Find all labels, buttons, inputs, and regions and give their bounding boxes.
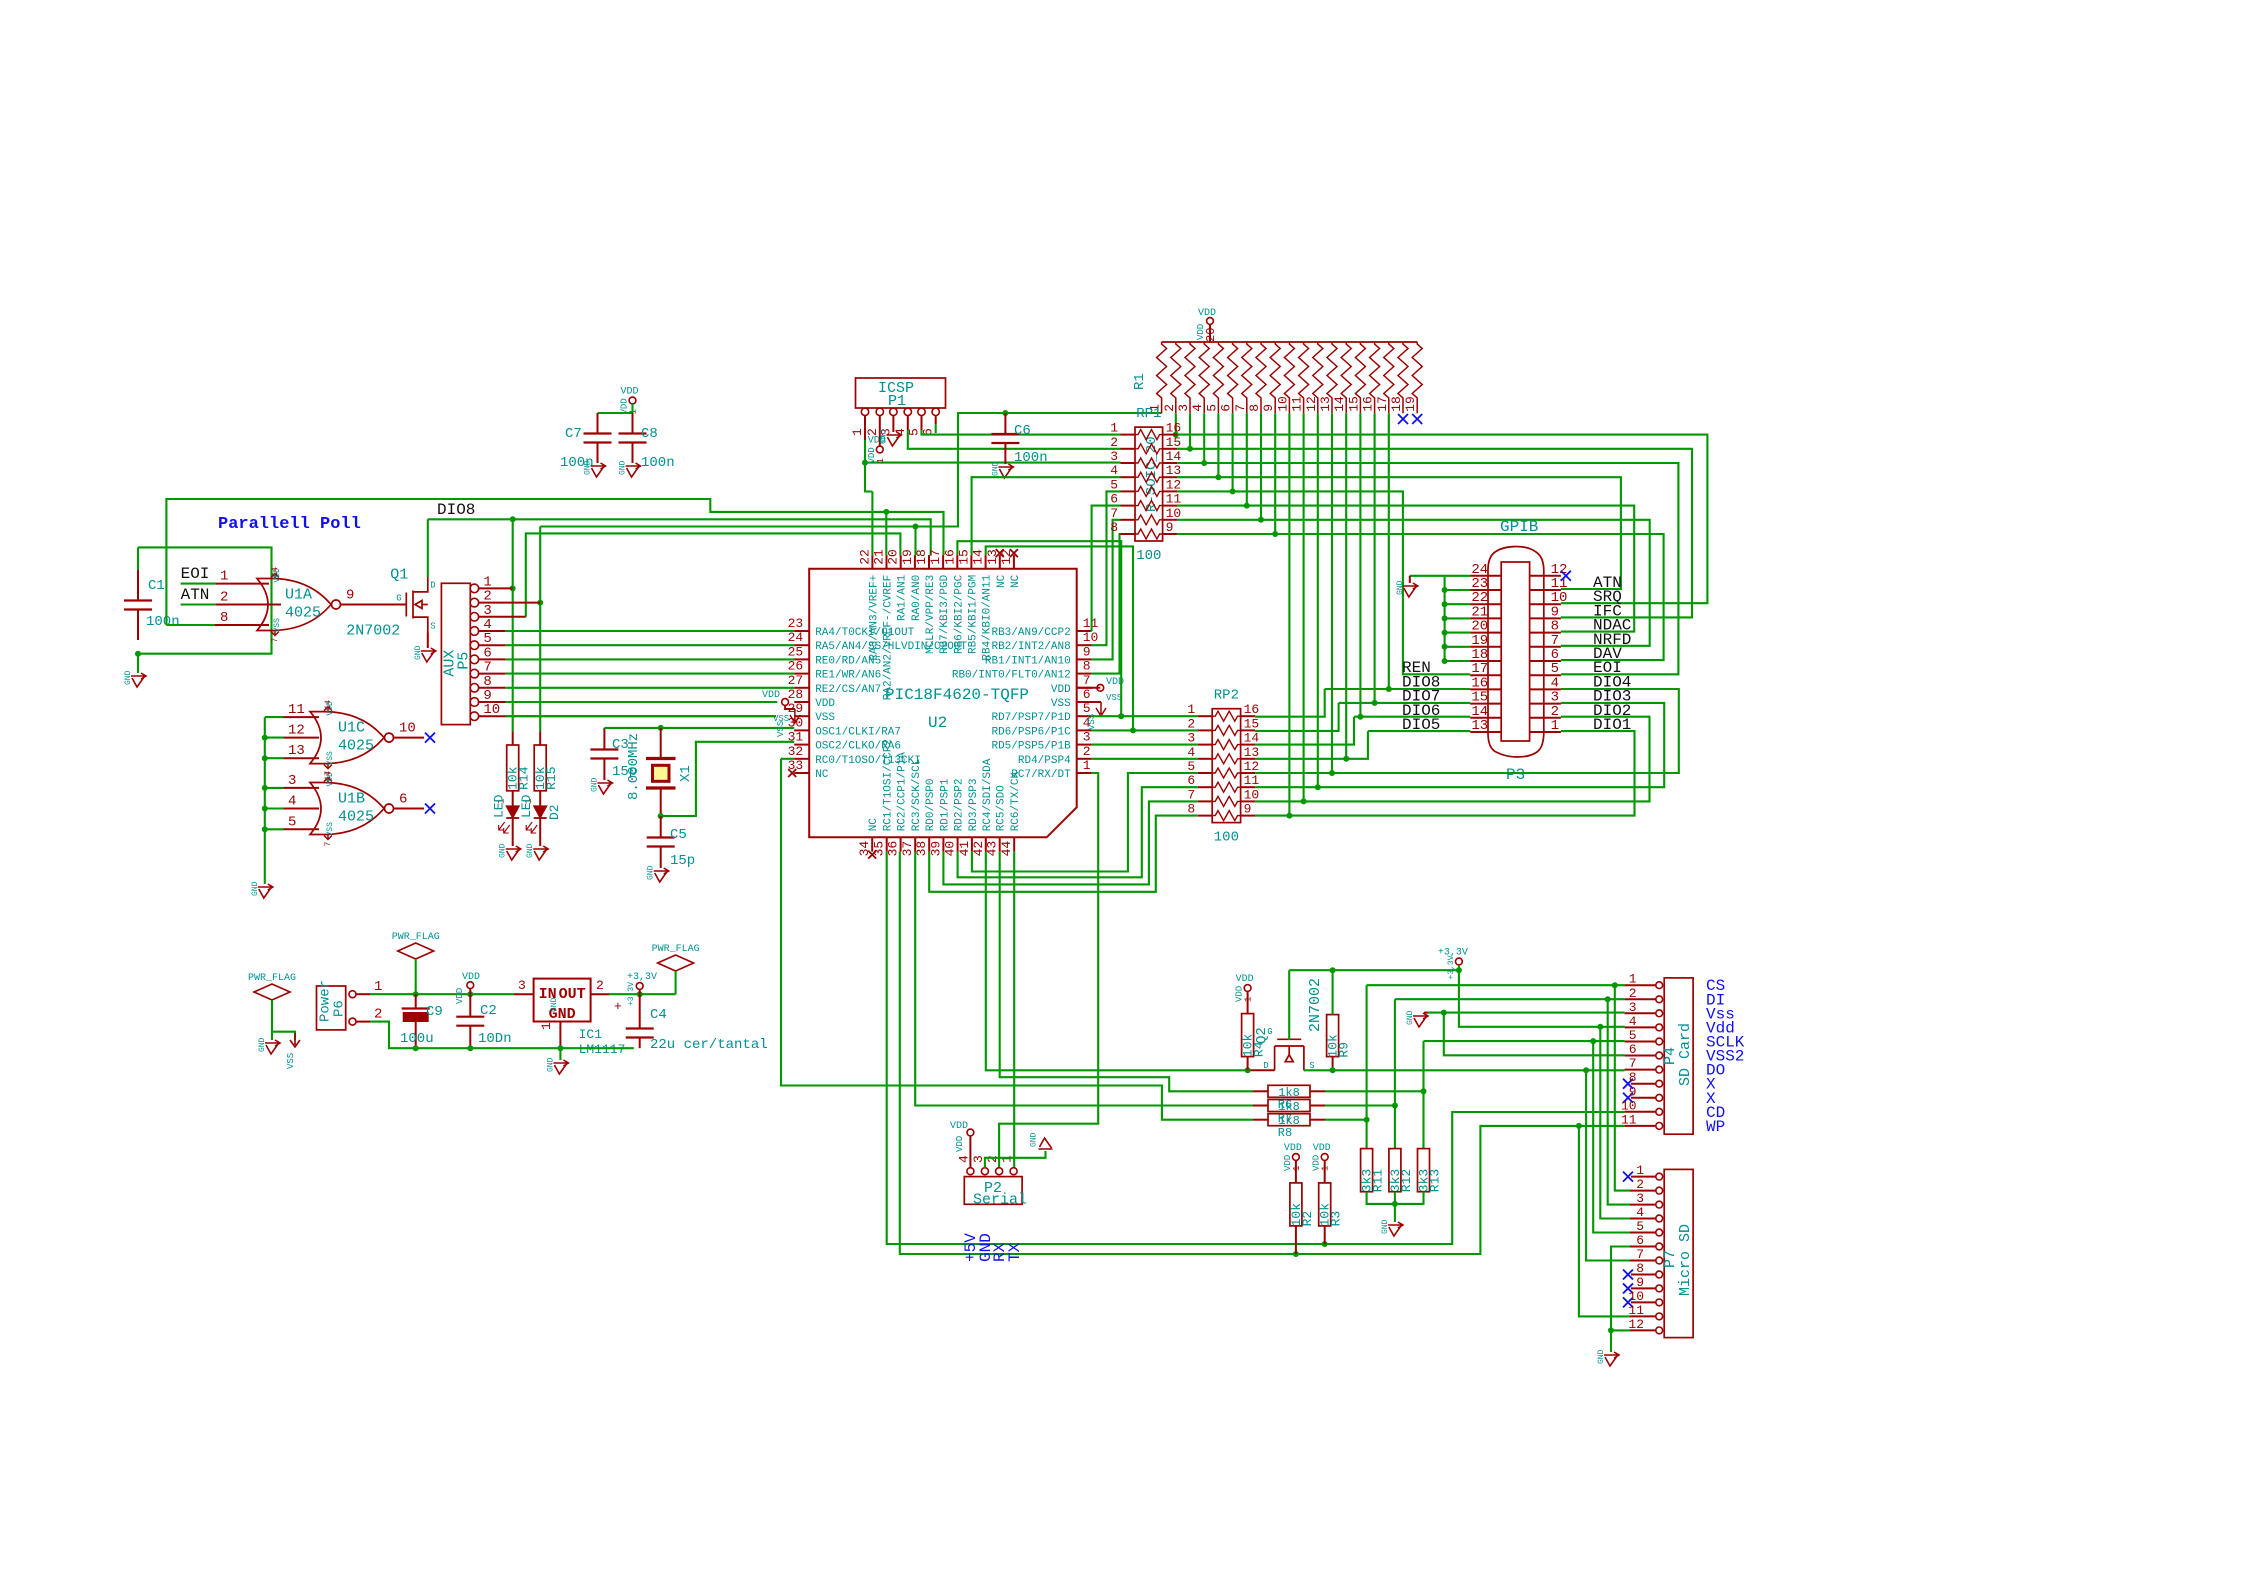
pin 8 P5 xyxy=(470,684,479,693)
svg-text:4: 4 xyxy=(1110,463,1118,478)
svg-text:13: 13 xyxy=(288,743,305,759)
ground xyxy=(626,463,641,477)
pin 7 P7 xyxy=(1656,1257,1663,1264)
junction xyxy=(1330,1067,1336,1073)
junction xyxy=(1421,1088,1427,1094)
pin 41 U2 xyxy=(971,837,973,851)
wire ICSP1 to RP1.3 xyxy=(865,462,1121,464)
ground xyxy=(1604,1352,1619,1366)
junction xyxy=(1343,756,1349,762)
svg-text:NC: NC xyxy=(815,769,829,781)
wire U2.16 jog east xyxy=(957,541,1121,716)
svg-text:VDD: VDD xyxy=(762,690,780,701)
pin 8 RP1 xyxy=(1121,533,1136,535)
wire SRQ xyxy=(1177,435,1707,604)
ground xyxy=(998,464,1013,478)
junction xyxy=(1187,446,1193,452)
svg-text:D: D xyxy=(430,581,435,591)
svg-text:6: 6 xyxy=(1636,1233,1644,1248)
junction xyxy=(1286,813,1292,819)
svg-text:34: 34 xyxy=(857,841,872,857)
junction xyxy=(1597,1024,1603,1030)
wire EOI xyxy=(1177,463,1678,674)
pin 27 U2 xyxy=(794,687,809,689)
wire ATN xyxy=(1177,477,1621,589)
junction xyxy=(262,826,268,832)
pin 23 U2 xyxy=(794,630,809,632)
svg-text:RB5/KBI1/PGM: RB5/KBI1/PGM xyxy=(967,575,979,654)
pin 14 RP2 xyxy=(1241,744,1256,746)
pin 9 P5 xyxy=(470,698,479,707)
wire xyxy=(265,716,284,718)
regulator IC1 LM1117 xyxy=(534,979,591,1022)
pin 6 P7 xyxy=(1656,1243,1663,1250)
junction xyxy=(262,806,268,812)
svg-text:LED: LED xyxy=(492,794,507,818)
pin 5 P7 xyxy=(1656,1229,1663,1236)
svg-text:3: 3 xyxy=(1110,449,1118,464)
wire xyxy=(506,701,778,703)
svg-text:8: 8 xyxy=(1636,1261,1644,1276)
svg-text:8: 8 xyxy=(1083,659,1091,674)
svg-text:11: 11 xyxy=(288,702,305,718)
svg-text:10: 10 xyxy=(399,721,416,737)
junction xyxy=(135,651,141,657)
svg-text:3: 3 xyxy=(288,773,296,789)
wire U2.14 jog east xyxy=(986,546,1133,730)
wire DAV xyxy=(1177,534,1664,660)
pin 15 RP2 xyxy=(1241,729,1256,731)
wire DIO2 net xyxy=(1255,717,1649,802)
pin 32 U2 xyxy=(794,758,809,760)
svg-text:VSS: VSS xyxy=(815,712,835,724)
svg-text:RA1/AN1: RA1/AN1 xyxy=(897,574,909,621)
svg-text:RA4/T0CKI/C1OUT: RA4/T0CKI/C1OUT xyxy=(815,627,914,639)
wire U2.32 to R8 xyxy=(781,758,794,760)
wire OSC1 row xyxy=(604,727,794,729)
svg-text:VDD: VDD xyxy=(621,387,639,398)
no-connect xyxy=(425,733,435,743)
svg-text:11: 11 xyxy=(1166,492,1182,507)
svg-text:7: 7 xyxy=(1187,787,1195,802)
svg-text:2N7002: 2N7002 xyxy=(346,623,400,640)
pin 3 RP2 xyxy=(1198,744,1213,746)
svg-text:RC6/TX/CK: RC6/TX/CK xyxy=(1010,771,1022,831)
svg-text:6: 6 xyxy=(1219,404,1234,412)
svg-text:18: 18 xyxy=(1389,396,1404,412)
junction xyxy=(1456,967,1462,973)
svg-text:C8: C8 xyxy=(641,426,658,442)
pin 5 P1 xyxy=(918,408,925,415)
svg-text:GND: GND xyxy=(1597,1349,1606,1364)
svg-text:RD5/PSP5/P1B: RD5/PSP5/P1B xyxy=(991,741,1071,753)
wire REN xyxy=(1177,491,1470,674)
svg-text:1: 1 xyxy=(1000,1155,1015,1163)
wire xyxy=(265,828,284,830)
wire P7 ground xyxy=(1611,1247,1630,1331)
svg-text:6: 6 xyxy=(1629,1042,1637,1057)
pin 4 U2 xyxy=(1077,729,1092,731)
pin 22 U2 xyxy=(871,555,873,569)
pin 12 P7 xyxy=(1656,1327,1663,1334)
svg-text:14: 14 xyxy=(1166,449,1182,464)
pin 14 U2 xyxy=(985,555,987,569)
svg-text:GND: GND xyxy=(1406,1010,1415,1025)
wire Q2 gate xyxy=(1288,970,1290,1040)
NOR gate U1B 4025 xyxy=(310,783,384,835)
svg-text:2: 2 xyxy=(1162,404,1177,412)
svg-text:TX: TX xyxy=(1006,1242,1024,1262)
svg-text:RB2/INT2/AN8: RB2/INT2/AN8 xyxy=(991,641,1070,653)
pin 7 U2 xyxy=(1077,687,1092,689)
svg-text:22: 22 xyxy=(857,549,872,565)
svg-text:15: 15 xyxy=(1244,716,1260,731)
pin 24 U2 xyxy=(794,644,809,646)
svg-text:VDD: VDD xyxy=(815,698,835,710)
pin 20 U2 xyxy=(900,555,902,569)
resistor R14 xyxy=(512,732,514,746)
svg-text:3: 3 xyxy=(971,1155,986,1163)
pin 11 RP1 xyxy=(1163,505,1178,507)
svg-text:GND: GND xyxy=(499,843,508,858)
svg-text:100n: 100n xyxy=(641,455,675,471)
svg-text:15: 15 xyxy=(1166,435,1182,450)
pin 3 RP1 xyxy=(1121,462,1136,464)
svg-text:12: 12 xyxy=(288,723,305,739)
pin 3 U2 xyxy=(1077,744,1092,746)
junction xyxy=(1392,1201,1398,1207)
ground xyxy=(553,1060,568,1074)
pin 10 P7 xyxy=(1656,1299,1663,1306)
junction xyxy=(658,813,664,819)
svg-text:GND: GND xyxy=(584,460,593,475)
svg-text:PIC18F4620-TQFP: PIC18F4620-TQFP xyxy=(885,686,1029,704)
wire Q1 source to GND xyxy=(427,633,429,649)
resistor R15 xyxy=(539,732,541,746)
pin 10 U2 xyxy=(1077,644,1092,646)
svg-text:1: 1 xyxy=(539,1022,554,1030)
svg-text:PWR_FLAG: PWR_FLAG xyxy=(392,932,440,943)
wire R11-R13 commons xyxy=(1367,1192,1424,1204)
wire OSC2 route xyxy=(661,742,795,816)
svg-text:U1C: U1C xyxy=(338,720,365,737)
wire RP2.6 to U2.40 xyxy=(958,787,1198,877)
pin 1 U2 xyxy=(1077,772,1092,774)
pin 15 U2 xyxy=(970,555,972,569)
wire U2.8 to RP1.8 xyxy=(1092,534,1121,674)
svg-text:15: 15 xyxy=(1346,396,1361,412)
svg-text:VDD: VDD xyxy=(1284,1143,1302,1154)
svg-text:15p: 15p xyxy=(670,853,695,869)
svg-text:10: 10 xyxy=(1275,396,1290,412)
svg-text:6: 6 xyxy=(399,792,407,808)
wire xyxy=(506,630,795,632)
svg-text:2: 2 xyxy=(220,590,228,606)
svg-text:25: 25 xyxy=(788,644,804,659)
wire AUX1/R14 column xyxy=(512,519,514,731)
pin 1 RP2 xyxy=(1198,715,1213,717)
resistor R7 1k8 xyxy=(1268,1100,1310,1112)
pin 8 P3 xyxy=(1530,632,1561,634)
svg-text:Q1: Q1 xyxy=(390,567,408,584)
pin 11 RP2 xyxy=(1241,786,1256,788)
svg-text:C2: C2 xyxy=(480,1003,497,1019)
power VDD xyxy=(1244,985,1251,992)
pin 6 U2 xyxy=(1077,701,1092,703)
resistor R8 1k8 xyxy=(1268,1114,1310,1126)
capacitor C8 xyxy=(632,413,634,434)
svg-text:16: 16 xyxy=(1244,702,1260,717)
power VDD C2 xyxy=(467,982,474,989)
no-connect xyxy=(1398,414,1408,424)
capacitor C7 xyxy=(597,413,599,434)
svg-text:100u: 100u xyxy=(400,1031,434,1047)
pin 43 U2 xyxy=(999,837,1001,851)
svg-text:11: 11 xyxy=(1290,396,1305,412)
capacitor C5 xyxy=(660,816,662,838)
wire xyxy=(914,527,916,556)
svg-text:13: 13 xyxy=(1471,718,1488,734)
wire DI to P7.3 xyxy=(1608,999,1630,1204)
svg-text:7: 7 xyxy=(1636,1247,1644,1262)
junction xyxy=(1442,615,1448,621)
wire R1.9 xyxy=(1274,413,1276,534)
svg-text:4025: 4025 xyxy=(338,809,374,826)
svg-text:1: 1 xyxy=(1551,718,1559,734)
ground xyxy=(258,884,273,898)
svg-text:NC: NC xyxy=(868,818,880,832)
svg-text:VSS: VSS xyxy=(776,721,786,737)
wire xyxy=(1445,632,1471,634)
svg-text:16: 16 xyxy=(942,549,957,565)
pin 25 U2 xyxy=(794,658,809,660)
pin 24 P3 xyxy=(1470,575,1501,577)
svg-text:2: 2 xyxy=(985,1155,1000,1163)
svg-text:1: 1 xyxy=(1083,758,1091,773)
svg-text:Parallell Poll: Parallell Poll xyxy=(218,515,361,534)
svg-text:X1: X1 xyxy=(678,765,694,782)
wire xyxy=(1092,758,1198,760)
connector P3 GPIB shell xyxy=(1488,547,1544,758)
svg-text:10: 10 xyxy=(1621,1098,1637,1113)
svg-text:14: 14 xyxy=(971,549,986,565)
wire R1.10 DIO1 xyxy=(1288,413,1290,815)
svg-text:3: 3 xyxy=(1636,1191,1644,1206)
wire R1.17 DIO8 xyxy=(1388,413,1390,689)
svg-text:3: 3 xyxy=(518,978,526,993)
svg-text:RB6/KBI2/PGC: RB6/KBI2/PGC xyxy=(953,574,965,654)
junction xyxy=(913,524,919,530)
svg-text:7: 7 xyxy=(1083,673,1091,688)
wire P6.1 to IC1 IN xyxy=(370,993,514,995)
svg-text:+: + xyxy=(614,999,622,1014)
svg-text:31: 31 xyxy=(788,730,804,745)
svg-text:10: 10 xyxy=(1244,787,1260,802)
wire AUX2/R15 column xyxy=(539,527,541,732)
svg-text:RE2/CS/AN7: RE2/CS/AN7 xyxy=(815,684,881,696)
svg-text:8: 8 xyxy=(1110,520,1118,535)
pin 5 P4 xyxy=(1656,1038,1663,1045)
svg-text:RP2: RP2 xyxy=(1214,688,1239,704)
svg-text:23: 23 xyxy=(788,616,804,631)
pin 6 P5 xyxy=(470,655,479,664)
svg-text:42: 42 xyxy=(971,841,986,857)
wire xyxy=(675,971,677,994)
svg-text:IC1: IC1 xyxy=(579,1027,603,1042)
svg-text:20: 20 xyxy=(886,549,901,565)
svg-text:16: 16 xyxy=(1361,396,1376,412)
svg-text:NC: NC xyxy=(1010,574,1022,588)
svg-text:17: 17 xyxy=(1375,396,1390,412)
pin 1 RP1 xyxy=(1121,434,1136,436)
svg-text:+3,3V: +3,3V xyxy=(627,972,657,983)
wire power ground bus xyxy=(370,1022,634,1049)
junction xyxy=(1605,996,1611,1002)
pin 8 P7 xyxy=(1656,1271,1663,1278)
pin 7 RP1 xyxy=(1121,519,1136,521)
svg-text:3: 3 xyxy=(1176,404,1191,412)
pin 40 U2 xyxy=(957,837,959,851)
LED D2 xyxy=(534,806,547,818)
junction xyxy=(467,1045,473,1051)
pin 2 P6 xyxy=(349,1018,356,1025)
pin 5 RP2 xyxy=(1198,772,1213,774)
wire RP2.8 to U2.38 xyxy=(929,816,1197,892)
wire xyxy=(506,715,776,717)
no-connect xyxy=(868,851,876,859)
svg-text:2N7002: 2N7002 xyxy=(1307,978,1324,1032)
wire U1A pin8 xyxy=(166,624,214,626)
pin 1 P2 xyxy=(1010,1168,1017,1175)
pin 6 P4 xyxy=(1656,1052,1663,1059)
pin 18 U2 xyxy=(928,555,930,569)
pin 5 P3 xyxy=(1530,674,1561,676)
wire xyxy=(271,1000,273,1040)
svg-text:5: 5 xyxy=(288,814,296,830)
svg-text:5: 5 xyxy=(1204,404,1219,412)
junction xyxy=(862,460,868,466)
svg-text:GND: GND xyxy=(124,670,133,685)
wire R6 east xyxy=(1325,1090,1424,1092)
pin 33 U2 xyxy=(794,772,809,774)
wire R1.3 xyxy=(1189,413,1191,449)
svg-text:9: 9 xyxy=(346,588,354,604)
junction xyxy=(1442,658,1448,664)
svg-text:VDD: VDD xyxy=(462,972,480,983)
wire NDAC xyxy=(1177,506,1634,632)
svg-text:2: 2 xyxy=(596,978,604,993)
svg-text:RD2/PSP2: RD2/PSP2 xyxy=(954,778,966,831)
svg-text:22u cer/tantal: 22u cer/tantal xyxy=(650,1037,768,1053)
wire +3.3V to SD Vdd xyxy=(1459,965,1625,1027)
wire U2.15 to RP1.4 xyxy=(972,477,1121,555)
wire R1.6 xyxy=(1232,413,1234,491)
pin 17 P3 xyxy=(1470,674,1501,676)
wire xyxy=(265,787,284,789)
svg-text:EOI: EOI xyxy=(181,565,210,583)
no-connect xyxy=(1623,1093,1633,1103)
no-connect xyxy=(1412,414,1422,424)
pin 30 U2 xyxy=(794,729,809,731)
pin 12 RP1 xyxy=(1163,490,1178,492)
ground xyxy=(654,868,669,882)
svg-text:R11: R11 xyxy=(1371,1169,1386,1193)
svg-text:10: 10 xyxy=(1083,630,1099,645)
svg-text:8: 8 xyxy=(1629,1070,1637,1085)
wire R1.7 xyxy=(1246,413,1248,505)
LED D1 xyxy=(506,806,519,818)
svg-text:14: 14 xyxy=(324,771,333,781)
svg-text:2: 2 xyxy=(1187,716,1195,731)
no-connect xyxy=(1561,571,1571,581)
wire xyxy=(1445,603,1471,605)
pin 4 RP2 xyxy=(1198,758,1213,760)
wire xyxy=(181,603,216,605)
pin 36 U2 xyxy=(900,837,902,851)
svg-text:RD1/PSP1: RD1/PSP1 xyxy=(939,778,951,831)
svg-text:P3: P3 xyxy=(1506,766,1525,784)
junction xyxy=(1576,1123,1582,1129)
svg-text:10: 10 xyxy=(1628,1289,1644,1304)
svg-text:12: 12 xyxy=(1166,477,1182,492)
no-connect xyxy=(996,549,1004,557)
resistor R9 10k xyxy=(1332,1014,1334,1016)
crystal X1 8.000MHz xyxy=(660,728,662,757)
wire R1.4 xyxy=(1203,413,1205,463)
capacitor C6 xyxy=(1004,413,1006,434)
junction xyxy=(1372,700,1378,706)
wire xyxy=(1445,589,1471,591)
pin 3 P7 xyxy=(1656,1201,1663,1208)
svg-text:P6: P6 xyxy=(332,1000,348,1017)
pin 12 U2 xyxy=(1013,555,1015,569)
pin 13 RP1 xyxy=(1163,476,1178,478)
svg-text:PWR_FLAG: PWR_FLAG xyxy=(248,973,296,984)
svg-text:R14: R14 xyxy=(517,766,532,790)
junction xyxy=(1258,517,1264,523)
svg-text:11: 11 xyxy=(1621,1112,1637,1127)
pin 4 P3 xyxy=(1530,688,1561,690)
pin 9 P7 xyxy=(1656,1285,1663,1292)
wire net ParallelPoll xyxy=(166,499,943,625)
pin 13 RP2 xyxy=(1241,758,1256,760)
pin 4 P7 xyxy=(1656,1215,1663,1222)
pin 11 P3 xyxy=(1530,589,1561,591)
svg-text:9: 9 xyxy=(1629,1084,1637,1099)
power VDD P2.4 xyxy=(967,1129,974,1136)
pin 4 P2 xyxy=(967,1168,974,1175)
ground xyxy=(506,846,521,860)
wire U2.9 to RP1.7 xyxy=(1092,520,1121,660)
pin 15 RP1 xyxy=(1163,448,1178,450)
svg-text:GND: GND xyxy=(590,777,599,792)
wire DIO1 net xyxy=(1255,731,1634,816)
wire xyxy=(598,412,633,414)
ground xyxy=(265,1040,280,1054)
power VDD at U2.7 xyxy=(1097,684,1104,691)
svg-text:GND: GND xyxy=(258,1037,267,1052)
svg-text:11: 11 xyxy=(1244,773,1260,788)
svg-text:VDD: VDD xyxy=(1313,1143,1331,1154)
wire IFC xyxy=(1177,449,1692,618)
svg-text:2: 2 xyxy=(1083,744,1091,759)
svg-text:9: 9 xyxy=(1244,802,1252,817)
junction xyxy=(1590,1038,1596,1044)
svg-text:12: 12 xyxy=(1628,1317,1644,1332)
power flag PWR_FLAG xyxy=(658,955,694,971)
wire R13 to SCLK xyxy=(1422,1041,1424,1149)
svg-text:8.000MHz: 8.000MHz xyxy=(626,733,642,800)
